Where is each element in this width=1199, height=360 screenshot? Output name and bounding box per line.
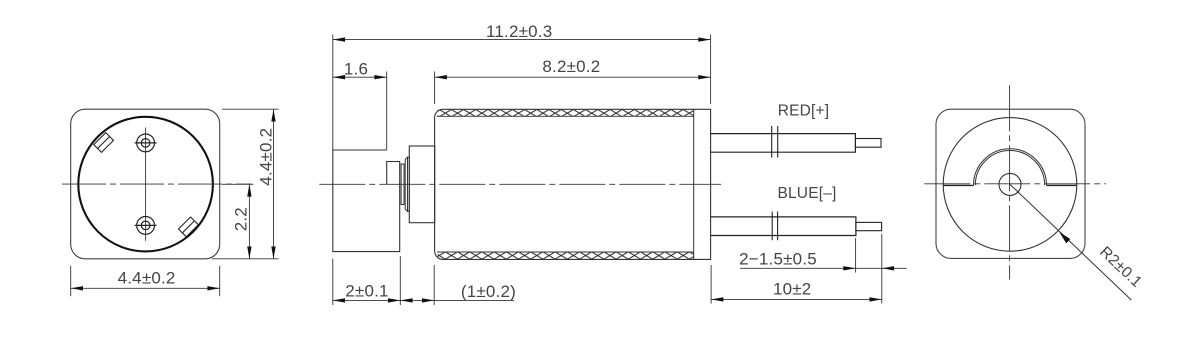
svg-text:8.2±0.2: 8.2±0.2 bbox=[542, 57, 600, 76]
screw hole bottom bbox=[135, 217, 157, 235]
svg-text:2−1.5±0.5: 2−1.5±0.5 bbox=[739, 249, 817, 268]
bearing disc bbox=[405, 157, 409, 211]
dimension 2.2 right of left view bbox=[212, 109, 279, 259]
front housing rounded square bbox=[71, 109, 220, 259]
blue wire break marks bbox=[772, 212, 777, 241]
svg-text:2.2: 2.2 bbox=[232, 207, 251, 231]
vertical centerline through screw holes bbox=[145, 128, 147, 241]
counterweight hub arc inner bbox=[975, 151, 1044, 186]
svg-text:4.4±0.2: 4.4±0.2 bbox=[118, 269, 176, 288]
dimension 1.6 bbox=[333, 72, 387, 151]
R2 leader arrowhead bbox=[1059, 232, 1070, 244]
red lead wire bbox=[711, 134, 856, 153]
svg-text:1.6: 1.6 bbox=[344, 60, 368, 79]
solder tab lower-right bbox=[179, 217, 199, 237]
dimension 10±2 bbox=[711, 265, 882, 304]
eccentric counterweight bbox=[333, 150, 400, 252]
screw hole top bbox=[135, 134, 157, 152]
dimension 8.2±0.2 bbox=[435, 72, 711, 105]
motor can rear circle bbox=[943, 118, 1077, 252]
counterweight hub arc outer bbox=[974, 149, 1047, 186]
svg-text:2±0.1: 2±0.1 bbox=[345, 281, 388, 300]
shaft circle bbox=[999, 173, 1021, 195]
svg-text:11.2±0.3: 11.2±0.3 bbox=[486, 22, 552, 41]
shaft washer bbox=[401, 164, 404, 205]
counterweight chord left bbox=[943, 184, 973, 186]
blue wire bare tip bbox=[856, 222, 882, 230]
blue lead wire bbox=[711, 217, 856, 236]
solder tab upper-left bbox=[94, 133, 114, 153]
vertical centerline bbox=[1009, 85, 1011, 279]
red wire bare tip bbox=[855, 139, 881, 148]
knurl band bottom bbox=[437, 251, 694, 253]
svg-text:(1±0.2): (1±0.2) bbox=[461, 282, 516, 301]
dimension 11.2±0.3 bbox=[333, 35, 711, 150]
dimension 4.4±0.2 bottom of left view bbox=[71, 266, 220, 296]
svg-text:10±2: 10±2 bbox=[773, 279, 812, 298]
svg-text:RED[+]: RED[+] bbox=[778, 103, 830, 120]
svg-text:BLUE[–]: BLUE[–] bbox=[777, 185, 836, 202]
horizontal dashed centerline bbox=[62, 183, 252, 185]
R2 leader line bbox=[1010, 184, 1131, 300]
counterweight chord right bbox=[1047, 184, 1077, 186]
motor can circle (thick) bbox=[78, 117, 213, 252]
dimension 2-1.5±0.5 bbox=[740, 234, 907, 304]
red wire break marks bbox=[772, 126, 778, 158]
rear housing rounded square bbox=[936, 109, 1085, 258]
motor body outline bbox=[435, 109, 711, 259]
dimension 4.4±0.2 right of left view bbox=[271, 109, 275, 121]
side view centerline bbox=[319, 183, 721, 185]
front bearing boss bbox=[409, 146, 434, 223]
horizontal centerline bbox=[924, 183, 1106, 185]
knurl band top bbox=[437, 115, 694, 117]
dimension 2±0.1 and (1±0.2) bbox=[333, 256, 514, 305]
end cap joint line bbox=[693, 109, 695, 259]
svg-text:4.4±0.2: 4.4±0.2 bbox=[257, 128, 276, 186]
